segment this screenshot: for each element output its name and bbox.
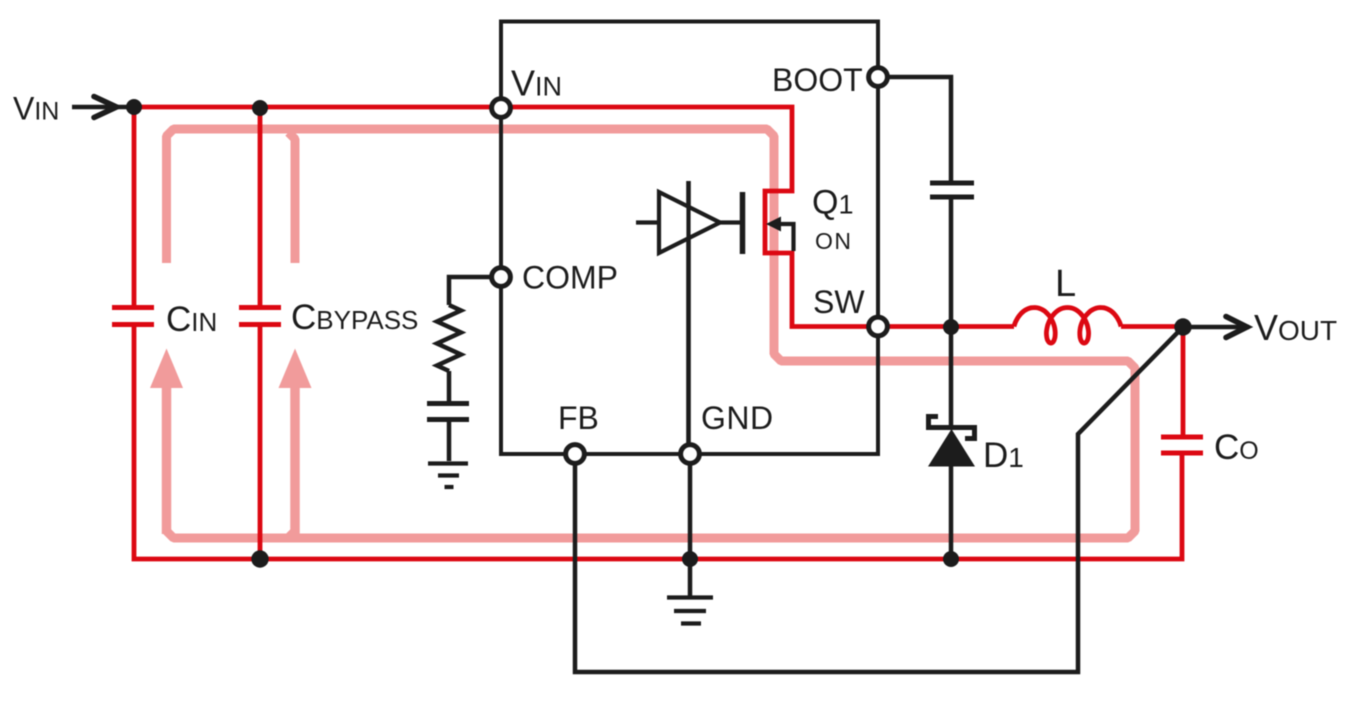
svg-text:SW: SW	[813, 284, 865, 320]
svg-text:GND: GND	[701, 400, 774, 436]
svg-text:ON: ON	[815, 228, 853, 254]
svg-text:FB: FB	[558, 400, 599, 436]
svg-text:D1: D1	[983, 436, 1024, 475]
svg-text:L: L	[1055, 263, 1076, 305]
svg-text:Q1: Q1	[812, 184, 853, 222]
svg-text:COMP: COMP	[522, 260, 618, 296]
svg-text:BOOT: BOOT	[772, 62, 863, 98]
